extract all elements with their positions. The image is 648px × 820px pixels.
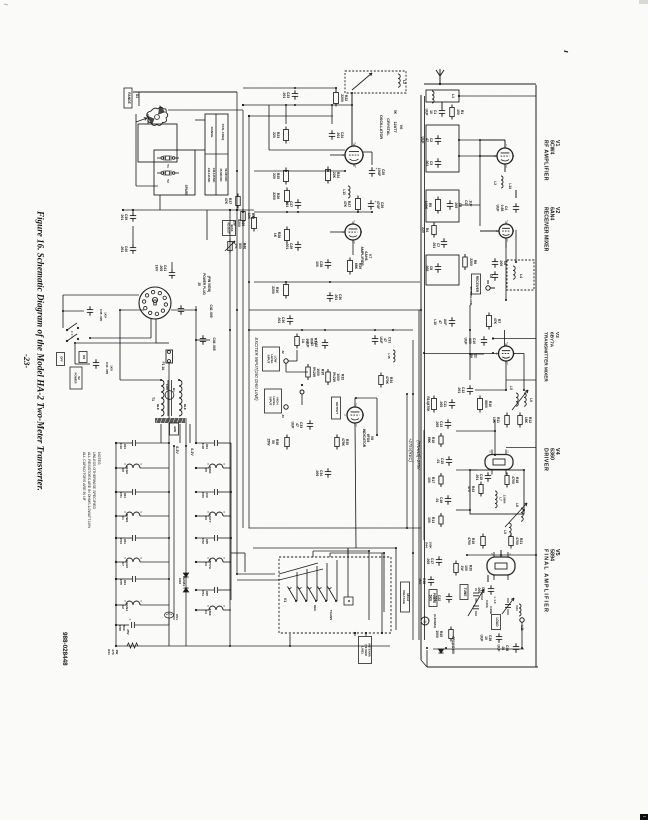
svg-text:POWER: POWER <box>73 373 77 385</box>
svg-text:XTAL FREQ: XTAL FREQ <box>221 124 225 141</box>
svg-text:18K: 18K <box>524 417 528 424</box>
svg-text:C45 .005: C45 .005 <box>99 309 103 322</box>
svg-text:UUF: UUF <box>464 338 468 345</box>
svg-text:59.333 MC: 59.333 MC <box>224 168 228 181</box>
svg-text:UUF: UUF <box>496 205 500 212</box>
svg-text:UNLESS OTHERWISE SPECIFIED: UNLESS OTHERWISE SPECIFIED <box>92 452 96 509</box>
svg-text:.005: .005 <box>205 538 209 544</box>
svg-text:1KV: 1KV <box>110 365 114 371</box>
svg-text:UUF: UUF <box>421 137 425 144</box>
svg-text:6360: 6360 <box>208 609 212 616</box>
svg-text:.001: .001 <box>123 443 127 449</box>
svg-text:4700: 4700 <box>511 476 515 484</box>
svg-text:LOAD: LOAD <box>495 617 499 627</box>
svg-text:CRYSTAL: CRYSTAL <box>386 118 390 136</box>
svg-text:1KV: 1KV <box>104 312 108 318</box>
svg-text:C42 .005: C42 .005 <box>209 305 213 318</box>
svg-text:68K: 68K <box>354 263 358 270</box>
svg-text:2200: 2200 <box>340 94 344 102</box>
svg-text:12AT7: 12AT7 <box>393 121 397 132</box>
svg-text:5894: 5894 <box>208 467 212 474</box>
svg-text:J2: J2 <box>281 350 285 354</box>
svg-text:.005: .005 <box>426 558 430 565</box>
svg-text:S1: S1 <box>135 94 139 98</box>
svg-text:L15: L15 <box>387 353 391 359</box>
svg-text:J5: J5 <box>197 282 201 286</box>
svg-text:C52: C52 <box>201 538 205 544</box>
svg-text:L13: L13 <box>342 189 346 195</box>
svg-text:UUF: UUF <box>291 422 295 429</box>
svg-text:L1: L1 <box>451 94 455 98</box>
svg-text:L10: L10 <box>433 319 437 325</box>
svg-text:INDICATOR: INDICATOR <box>362 429 366 448</box>
svg-text:CR2: CR2 <box>178 578 182 584</box>
svg-text:(PIN VIEW): (PIN VIEW) <box>207 276 211 292</box>
svg-text:TUNE: TUNE <box>463 588 467 597</box>
svg-text:1W: 1W <box>460 565 464 571</box>
svg-text:.001: .001 <box>205 443 209 449</box>
svg-text:M: M <box>424 620 427 624</box>
svg-text:.005: .005 <box>454 202 458 209</box>
svg-text:6BY7A: 6BY7A <box>550 332 555 348</box>
svg-text:C50: C50 <box>201 492 205 498</box>
svg-text:1A: 1A <box>301 339 305 344</box>
svg-text:68K: 68K <box>427 437 431 444</box>
svg-text:6.3V: 6.3V <box>175 446 179 454</box>
svg-text:V6: V6 <box>204 516 208 520</box>
svg-text:1000: 1000 <box>435 630 439 638</box>
svg-text:1KV: 1KV <box>155 265 159 272</box>
svg-text:L7: L7 <box>499 497 503 501</box>
svg-text:C20A: C20A <box>485 600 489 609</box>
svg-text:22: 22 <box>473 354 477 358</box>
svg-text:L14: L14 <box>508 183 512 189</box>
svg-text:RFC2: RFC2 <box>480 592 484 600</box>
svg-text:144-146 MC: 144-146 MC <box>207 168 211 183</box>
svg-text:.005: .005 <box>205 590 209 596</box>
svg-text:RECEIVER MIXER: RECEIVER MIXER <box>543 207 549 252</box>
svg-text:OFF: OFF <box>60 356 64 362</box>
svg-text:INPUT: INPUT <box>267 355 271 364</box>
svg-text:ON: ON <box>82 355 86 359</box>
svg-text:6BY7A: 6BY7A <box>208 559 212 570</box>
svg-text:V4: V4 <box>204 610 208 614</box>
svg-text:V3: V3 <box>204 562 208 566</box>
svg-text:L2: L2 <box>402 80 406 84</box>
svg-text:R14|470K: R14|470K <box>426 396 430 412</box>
svg-text:DRIVER: DRIVER <box>543 448 549 471</box>
svg-text:10UF: 10UF <box>377 168 381 176</box>
svg-text:ALL RESISTORS ARE IN OHMS,1/2W: ALL RESISTORS ARE IN OHMS,1/2WATT,10% <box>87 452 91 529</box>
svg-text:.001: .001 <box>123 579 127 585</box>
svg-text:100: 100 <box>427 517 431 523</box>
svg-text:FAN: FAN <box>165 384 169 389</box>
svg-text:POWER PLUG: POWER PLUG <box>202 273 206 295</box>
svg-text:1K: 1K <box>273 233 277 238</box>
svg-text:V1: V1 <box>121 516 125 520</box>
svg-text:6800: 6800 <box>484 400 488 408</box>
svg-text:IN2484: IN2484 <box>182 576 186 586</box>
svg-text:VOLTAGE: VOLTAGE <box>402 590 406 604</box>
svg-text:47K: 47K <box>224 198 228 205</box>
svg-text:470: 470 <box>467 486 471 492</box>
svg-text:V8: V8 <box>121 468 125 472</box>
svg-text:.001: .001 <box>334 294 338 301</box>
svg-text:4700: 4700 <box>515 537 519 545</box>
svg-text:REC: REC <box>313 605 317 612</box>
svg-text:ALL CAPACITORS ARE IN UF: ALL CAPACITORS ARE IN UF <box>82 452 86 502</box>
svg-text:47K: 47K <box>343 201 347 208</box>
svg-text:.001: .001 <box>120 246 124 253</box>
svg-text:500: 500 <box>122 625 126 630</box>
svg-text:L 1.0: L 1.0 <box>493 597 497 604</box>
svg-text:L4: L4 <box>519 274 523 278</box>
svg-text:GRN: GRN <box>173 426 177 432</box>
svg-text:C53: C53 <box>119 538 123 544</box>
svg-text:Y1: Y1 <box>166 164 170 168</box>
svg-text:.01: .01 <box>435 498 439 503</box>
svg-text:CR1|IN2069: CR1|IN2069 <box>451 636 455 654</box>
svg-text:.001: .001 <box>475 474 479 481</box>
svg-text:2200: 2200 <box>271 286 275 294</box>
svg-text:22K: 22K <box>332 172 336 179</box>
svg-text:(TRANS)+275V: (TRANS)+275V <box>416 440 421 470</box>
svg-text:2200: 2200 <box>272 192 276 200</box>
svg-text:4700: 4700 <box>467 537 471 545</box>
svg-text:146-148 MC: 146-148 MC <box>212 168 216 183</box>
svg-text:F1 1A: F1 1A <box>161 362 165 371</box>
svg-text:.001: .001 <box>282 92 286 99</box>
svg-text:150: 150 <box>456 109 460 115</box>
svg-text:25W: 25W <box>267 439 271 447</box>
svg-text:C48: C48 <box>201 443 205 449</box>
svg-text:6FG6: 6FG6 <box>125 466 129 474</box>
svg-text:-23-: -23- <box>22 354 32 368</box>
svg-text:47: 47 <box>438 320 442 324</box>
svg-text:TRANS: TRANS <box>329 610 333 620</box>
svg-text:LINE): LINE) <box>361 646 365 653</box>
svg-text:6AH6: 6AH6 <box>125 560 129 568</box>
svg-text:V6: V6 <box>399 125 403 130</box>
svg-text:100: 100 <box>205 492 209 497</box>
svg-text:C51: C51 <box>119 492 123 498</box>
svg-text:.001: .001 <box>123 492 127 498</box>
svg-text:47K: 47K <box>493 318 497 325</box>
svg-text:V3: V3 <box>555 332 560 338</box>
svg-text:270: 270 <box>111 649 115 654</box>
svg-text:C6: C6 <box>489 274 493 278</box>
svg-text:6CW4: 6CW4 <box>125 514 129 523</box>
svg-text:2W: 2W <box>115 650 119 655</box>
svg-text:2200: 2200 <box>469 258 473 266</box>
svg-text:J3: J3 <box>281 414 285 418</box>
svg-text:+: + <box>129 618 131 622</box>
svg-text:.1UF: .1UF <box>468 200 472 207</box>
svg-text:Y2: Y2 <box>166 179 170 183</box>
svg-text:C58: C58 <box>118 625 122 631</box>
svg-text:PLATE: PLATE <box>432 593 436 603</box>
svg-text:470K: 470K <box>385 376 389 385</box>
svg-text:V2: V2 <box>121 605 125 609</box>
svg-text:UUF: UUF <box>443 319 447 326</box>
svg-text:12AT7: 12AT7 <box>208 513 212 522</box>
svg-text:BLK: BLK <box>183 404 187 410</box>
svg-text:.005: .005 <box>435 421 439 428</box>
svg-text:V5: V5 <box>204 468 208 472</box>
svg-text:220: 220 <box>272 132 276 138</box>
svg-text:.001: .001 <box>285 243 289 250</box>
svg-text:.005: .005 <box>499 260 503 267</box>
svg-text:C55: C55 <box>119 579 123 585</box>
svg-text:C20B: C20B <box>489 606 493 615</box>
svg-text:988-028448: 988-028448 <box>61 632 68 666</box>
svg-text:.001: .001 <box>285 201 289 208</box>
svg-text:.001: .001 <box>425 160 429 167</box>
svg-text:.001: .001 <box>432 242 436 249</box>
svg-text:.005: .005 <box>418 578 422 585</box>
svg-text:B1: B1 <box>172 388 176 392</box>
svg-text:25V: 25V <box>126 629 130 635</box>
svg-text:RANGE: RANGE <box>127 92 131 104</box>
svg-text:47UF: 47UF <box>376 201 380 209</box>
svg-text:K1: K1 <box>283 598 287 602</box>
svg-text:5%2W: 5%2W <box>312 367 316 378</box>
svg-text:OUTPUT: OUTPUT <box>335 402 339 415</box>
svg-text:L8: L8 <box>515 503 519 507</box>
svg-text:.005: .005 <box>425 265 429 272</box>
svg-text:5K: 5K <box>393 110 397 115</box>
svg-text:L6: L6 <box>529 398 533 402</box>
svg-text:FINAL AMPLIFIER: FINAL AMPLIFIER <box>543 549 549 613</box>
svg-text:C43 .005: C43 .005 <box>105 362 109 375</box>
svg-text:.001: .001 <box>277 317 281 324</box>
svg-text:.001: .001 <box>457 387 461 394</box>
svg-text:Figure 16. Schematic Diagram: Figure 16. Schematic Diagram of the Mode… <box>36 210 46 491</box>
svg-text:100: 100 <box>315 261 319 267</box>
svg-text:C46: C46 <box>119 443 123 449</box>
svg-text:ADJUST: ADJUST <box>226 222 230 234</box>
svg-text:T1: T1 <box>151 397 155 401</box>
svg-text:10K: 10K <box>247 213 251 220</box>
svg-text:EXCITER INPUT(150 OHM LINE): EXCITER INPUT(150 OHM LINE) <box>254 337 259 401</box>
svg-text:6AN4: 6AN4 <box>125 603 129 611</box>
svg-text:C21: C21 <box>515 605 519 611</box>
svg-text:R41: R41 <box>107 649 111 655</box>
svg-text:V7: V7 <box>121 562 125 566</box>
svg-text:C44 .005: C44 .005 <box>212 338 216 351</box>
svg-text:.005: .005 <box>315 470 319 477</box>
svg-text:6.3V: 6.3V <box>190 448 194 456</box>
svg-text:.001: .001 <box>336 132 340 139</box>
svg-text:OSCILLATOR: OSCILLATOR <box>379 115 383 140</box>
svg-text:L3: L3 <box>493 181 497 185</box>
svg-text:UUF: UUF <box>425 109 429 116</box>
svg-text:100K: 100K <box>429 541 433 549</box>
svg-text:5%: 5% <box>234 244 238 249</box>
svg-text:RF AMPLIFIER: RF AMPLIFIER <box>543 140 549 181</box>
svg-text:UUF: UUF <box>497 645 501 652</box>
svg-text:SPARE: SPARE <box>184 185 188 196</box>
svg-text:.001: .001 <box>123 538 127 544</box>
svg-text:RANGE: RANGE <box>210 127 214 138</box>
svg-text:50 OHM-LINE: 50 OHM-LINE <box>469 286 473 305</box>
svg-text:2.5UH: 2.5UH <box>503 495 507 504</box>
svg-text:UUF: UUF <box>306 341 310 348</box>
svg-text:L9: L9 <box>503 530 507 534</box>
svg-text:220: 220 <box>272 173 276 179</box>
svg-text:475K: 475K <box>341 438 345 447</box>
svg-text:100: 100 <box>427 477 431 483</box>
svg-text:R44: R44 <box>425 542 429 548</box>
svg-text:RECEIVER: RECEIVER <box>475 276 479 293</box>
svg-text:DS1: DS1 <box>175 614 179 620</box>
svg-text:5%2W: 5%2W <box>332 372 336 383</box>
svg-text:.005: .005 <box>439 401 443 408</box>
svg-text:C54: C54 <box>201 590 205 596</box>
svg-text:INPUT: INPUT <box>269 397 273 406</box>
svg-text:BLK: BLK <box>156 404 160 410</box>
svg-text:L5: L5 <box>509 386 513 390</box>
svg-text:+275V(REC): +275V(REC) <box>408 438 413 462</box>
svg-text:.01: .01 <box>436 459 440 464</box>
svg-text:UUF: UUF <box>480 635 484 642</box>
svg-text:NOTES:: NOTES: <box>97 452 101 465</box>
svg-text:.001: .001 <box>120 214 124 221</box>
svg-text:(0-300MA): (0-300MA) <box>433 614 437 628</box>
svg-text:35.666 MC: 35.666 MC <box>219 168 223 181</box>
svg-text:TRANSMITTER MIXER: TRANSMITTER MIXER <box>544 332 549 382</box>
svg-text:UUF: UUF <box>379 337 383 344</box>
